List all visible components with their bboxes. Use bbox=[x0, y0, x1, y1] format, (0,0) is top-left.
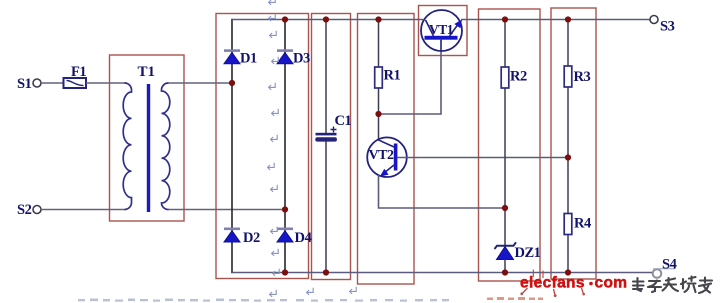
terminal S4 bbox=[653, 269, 662, 278]
top rail wire right of VT1 bbox=[461, 19, 651, 21]
bottom rail wire bbox=[232, 272, 652, 274]
bridge left branch wire bbox=[231, 19, 233, 273]
red stage box R2/DZ1 bbox=[479, 9, 541, 281]
svg-text:D3: D3 bbox=[293, 51, 310, 67]
svg-text:S4: S4 bbox=[662, 257, 677, 273]
wire S1 to fuse bbox=[41, 82, 64, 84]
junction node bridge left mid bbox=[229, 80, 235, 86]
red stage box T1 bbox=[110, 55, 185, 221]
bridge right branch wire bbox=[284, 19, 286, 273]
resistor R4 bbox=[564, 214, 572, 235]
terminal S2 bbox=[33, 206, 41, 214]
svg-text:F1: F1 bbox=[71, 64, 86, 80]
resistor R3 bbox=[564, 66, 572, 87]
caption fragment red bbox=[487, 297, 543, 300]
junction node top rail C1 bbox=[323, 16, 329, 22]
svg-text:elecfans: elecfans bbox=[520, 274, 585, 291]
svg-text:R1: R1 bbox=[384, 68, 401, 84]
diode D3 bbox=[277, 49, 310, 66]
svg-text:T1: T1 bbox=[138, 64, 156, 80]
red stage box VT1 bbox=[419, 6, 468, 56]
red stage box bridge bbox=[216, 14, 309, 279]
top rail wire bbox=[232, 19, 423, 21]
resistor R1 column wire bbox=[378, 20, 380, 68]
transformer T1 primary winding bbox=[123, 83, 131, 210]
watermark elecfans.com bbox=[520, 270, 627, 298]
terminal S3 bbox=[650, 16, 658, 24]
junction node top rail R3 bbox=[565, 16, 571, 22]
fuse F1 bbox=[64, 64, 87, 88]
svg-text:S1: S1 bbox=[17, 76, 32, 92]
wire S2 to transformer bbox=[41, 209, 126, 211]
paragraph return marks bbox=[268, 0, 357, 297]
transformer T1 secondary winding bbox=[162, 83, 170, 210]
junction node bridge right mid bbox=[282, 206, 288, 212]
svg-text:R2: R2 bbox=[510, 69, 527, 85]
wire fuse to transformer bbox=[86, 82, 126, 84]
resistor R2 bbox=[501, 67, 509, 88]
svg-text:S3: S3 bbox=[660, 19, 675, 35]
transistor VT2 bbox=[367, 137, 407, 177]
svg-text:VT2: VT2 bbox=[369, 148, 394, 163]
wire VT2 base to divider bbox=[398, 157, 569, 159]
svg-text:R3: R3 bbox=[574, 69, 591, 85]
wire VT2 emitter down bbox=[379, 175, 506, 208]
caption fragment bottom bbox=[78, 299, 449, 302]
svg-text:VT1: VT1 bbox=[429, 22, 454, 37]
diode D2 bbox=[224, 228, 260, 247]
svg-text:DZ1: DZ1 bbox=[515, 245, 541, 261]
wire secondary top to bridge bbox=[169, 82, 233, 84]
red stage box R1/VT2 bbox=[358, 14, 415, 285]
capacitor C1 bbox=[315, 113, 351, 142]
transformer T1 core bbox=[147, 84, 150, 212]
svg-text:C1: C1 bbox=[335, 113, 352, 129]
junction node top rail bridge bbox=[282, 16, 288, 22]
zener diode DZ1 bbox=[495, 242, 541, 272]
red stage box R3/R4 bbox=[551, 8, 596, 279]
junction node bottom rail C1 bbox=[323, 269, 329, 275]
svg-text:S2: S2 bbox=[17, 202, 32, 218]
resistor R1 bbox=[375, 67, 383, 88]
svg-text:D2: D2 bbox=[243, 230, 260, 246]
junction node bottom rail R4 bbox=[565, 269, 571, 275]
junction node divider R3/R4 bbox=[565, 154, 571, 160]
resistor R2 column wire bbox=[504, 20, 506, 68]
junction node top rail R2 bbox=[502, 16, 508, 22]
svg-text:R4: R4 bbox=[574, 216, 591, 232]
resistor R3 column wire bbox=[567, 20, 569, 67]
wire secondary bottom to bridge bbox=[169, 209, 286, 211]
junction node R1 bottom bbox=[375, 111, 381, 117]
svg-text:D1: D1 bbox=[240, 51, 257, 67]
junction node bottom rail bridge bbox=[282, 269, 288, 275]
svg-text:com: com bbox=[595, 274, 628, 291]
transistor VT1 bbox=[421, 10, 462, 51]
junction node bottom rail DZ1 bbox=[502, 269, 508, 275]
svg-text:D4: D4 bbox=[295, 230, 312, 246]
diode D1 bbox=[224, 49, 257, 66]
junction node top rail R1 bbox=[375, 16, 381, 22]
red stage box C1 bbox=[312, 14, 351, 280]
junction node R2/DZ1 bbox=[502, 205, 508, 211]
watermark chinese calligraphy bbox=[633, 277, 712, 294]
terminal S1 bbox=[33, 79, 41, 87]
capacitor C1 column wire bbox=[325, 20, 327, 134]
wire R1 junction to VT1 base bbox=[379, 51, 442, 114]
diode D4 bbox=[277, 228, 311, 247]
